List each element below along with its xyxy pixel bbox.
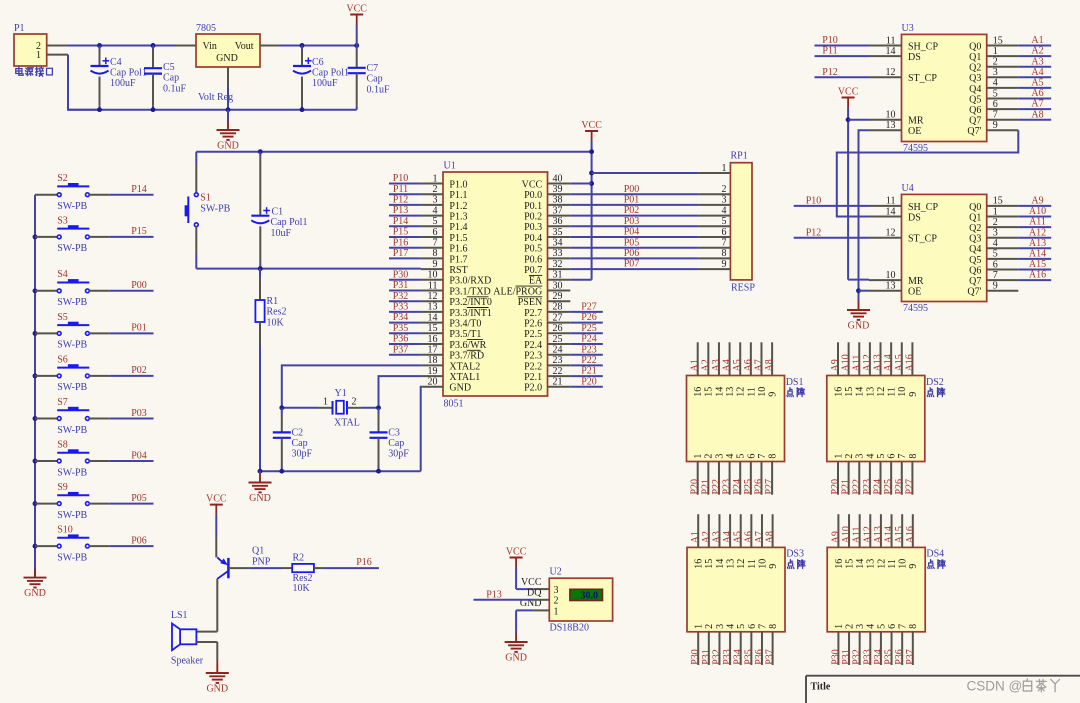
svg-text:LS1: LS1 [171,610,188,621]
svg-text:P3.1/TXD: P3.1/TXD [449,286,490,297]
svg-text:10: 10 [898,559,909,569]
svg-text:1: 1 [833,454,844,459]
wire and net label A13 (U4 Q4) [1018,238,1051,249]
svg-text:A5: A5 [732,359,743,371]
wire VCC to U3 MR pin10 [848,119,869,121]
capacitor C4 100uF [91,46,147,110]
svg-text:9: 9 [768,392,779,397]
ground GND (power) [217,110,240,152]
wire and net label P21 (U1 pin 22) [570,366,603,377]
wire and net label P13 (U1 pin 4) [389,205,421,216]
svg-text:P06: P06 [131,535,147,546]
svg-text:P23: P23 [581,344,597,355]
wire and net label P27 (U1 pin 28) [570,302,603,313]
svg-text:2: 2 [844,454,855,459]
svg-text:A6: A6 [743,531,754,543]
wire and net label P37 (U1 pin 17) [389,344,421,355]
wire XTAL2 net (U1 pin18) [282,365,421,407]
svg-text:C5: C5 [163,62,175,73]
svg-text:5: 5 [736,624,747,629]
label 点阵 (DS2) [927,388,945,397]
svg-text:A4: A4 [722,531,733,543]
svg-text:A12: A12 [1029,227,1046,238]
svg-text:7: 7 [722,238,727,249]
wire and net label P25 (U1 pin 26) [570,323,603,334]
svg-text:A16: A16 [904,354,915,371]
wire power ground rail [68,88,357,112]
wire and net label P26 (U1 pin 27) [570,312,603,323]
svg-text:GND: GND [848,321,870,332]
svg-text:P0.0: P0.0 [524,190,542,201]
svg-text:11: 11 [747,559,758,569]
label 点阵 (DS3) [787,560,805,569]
svg-text:P05: P05 [624,237,640,248]
svg-text:P01: P01 [624,195,640,206]
power VCC (U1/RP1) [581,120,602,280]
svg-text:P04: P04 [624,227,640,238]
svg-text:8051: 8051 [444,399,464,410]
wire and net label P11 (U3 DS) [815,46,870,57]
svg-text:P37: P37 [765,649,776,665]
wire and net label P24 (U1 pin 25) [570,334,603,345]
svg-text:5: 5 [876,624,887,629]
wire and net label P16 (U1 pin 7) [389,237,421,248]
svg-text:P17: P17 [393,248,409,259]
svg-text:P30: P30 [690,649,701,665]
svg-text:Cap: Cap [292,438,308,449]
svg-text:S2: S2 [57,173,68,184]
svg-text:A13: A13 [873,526,884,543]
svg-text:14: 14 [714,387,725,397]
svg-text:A4: A4 [1031,67,1043,78]
wire and net label P12 (U3 ST_CP) [815,67,870,78]
svg-text:P35: P35 [884,649,895,665]
svg-text:A1: A1 [690,531,701,543]
wire OE pins to GND (U3/U4) [856,130,869,301]
svg-text:P3.2/INT0: P3.2/INT0 [449,297,492,308]
wires DS2 top pins (A9..A16) [830,342,915,375]
wire and net label P15 (S3) [110,226,154,237]
switch S3 SW-PB [35,215,110,254]
svg-text:100uF: 100uF [110,78,136,89]
svg-text:SW-PB: SW-PB [57,552,87,563]
wire and net label P23 (U1 pin 24) [570,344,603,355]
svg-text:P13: P13 [393,205,409,216]
wire and net label A4 (U3 Q3) [1018,67,1051,78]
svg-text:9: 9 [908,392,919,397]
svg-text:A11: A11 [1029,217,1046,228]
svg-text:GND: GND [449,383,471,394]
svg-text:P31: P31 [841,649,852,665]
svg-text:P33: P33 [722,649,733,665]
svg-text:4: 4 [722,205,727,216]
svg-text:P25: P25 [581,323,597,334]
svg-text:P1: P1 [14,23,25,34]
svg-text:1: 1 [694,624,705,629]
wire and net label P03 (U1 pin 36 to RP1 pin 5) [570,216,730,227]
svg-text:R2: R2 [293,552,305,563]
svg-text:A6: A6 [1031,88,1043,99]
ground GND (U2) [505,633,528,664]
svg-text:Q0: Q0 [969,41,981,52]
wire EA net (U1 pin31) [570,279,591,281]
svg-text:15: 15 [704,387,715,397]
svg-text:ST_CP: ST_CP [908,73,937,84]
svg-text:10: 10 [757,559,768,569]
svg-text:1: 1 [693,454,704,459]
wire and net label P32 (U1 pin 12) [389,291,421,302]
svg-text:A15: A15 [1029,259,1046,270]
svg-text:A14: A14 [883,354,894,371]
svg-text:16: 16 [833,387,844,397]
wire and net label P10 (U3 SH_CP) [815,35,870,46]
svg-text:P21: P21 [841,479,852,495]
svg-text:SW-PB: SW-PB [57,201,87,212]
svg-text:P32: P32 [852,649,863,665]
switch S10 SW-PB [35,525,110,564]
svg-text:P11: P11 [393,184,408,195]
svg-text:DS4: DS4 [926,549,944,560]
svg-text:P15: P15 [131,226,147,237]
svg-text:P12: P12 [822,67,838,78]
svg-text:1: 1 [36,50,41,61]
wire button ground bus [33,195,38,578]
switch S4 SW-PB [35,269,110,308]
svg-text:100uF: 100uF [312,78,338,89]
svg-text:Q2: Q2 [969,63,981,74]
svg-text:PSEN: PSEN [518,297,542,308]
svg-text:P3.3/INT1: P3.3/INT1 [449,308,492,319]
svg-text:Cap Pol1: Cap Pol1 [110,68,147,79]
svg-text:A13: A13 [1029,238,1046,249]
svg-text:6: 6 [887,454,898,459]
svg-text:A1: A1 [690,359,701,371]
wire Q1 collector to speaker [196,579,217,632]
svg-text:2: 2 [352,397,357,408]
svg-text:7805: 7805 [196,23,216,34]
capacitor C6 100uF [293,46,349,110]
svg-text:A15: A15 [894,354,905,371]
svg-text:13: 13 [725,559,736,569]
svg-text:Cap: Cap [163,73,179,84]
wire and net label P11 (U1 pin 2) [389,184,421,195]
svg-text:A11: A11 [851,355,862,372]
svg-text:P26: P26 [894,479,905,495]
svg-text:12: 12 [876,559,887,569]
svg-text:P11: P11 [822,46,837,57]
svg-text:4: 4 [725,624,736,629]
svg-text:A13: A13 [873,354,884,371]
svg-text:Q4: Q4 [969,84,981,95]
svg-text:P04: P04 [131,450,147,461]
svg-text:A14: A14 [884,526,895,543]
svg-text:P2.4: P2.4 [524,340,542,351]
wire and net label P03 (S7) [110,408,154,419]
svg-text:6: 6 [747,624,758,629]
svg-text:P3.0/RXD: P3.0/RXD [449,276,491,287]
svg-text:P25: P25 [883,479,894,495]
svg-text:7: 7 [897,454,908,459]
dot matrix DS1 点阵 [687,376,804,462]
ground GND (speaker) [206,660,229,695]
svg-text:P05: P05 [131,493,147,504]
svg-text:Q6: Q6 [969,105,981,116]
svg-text:P16: P16 [393,237,409,248]
svg-text:30pF: 30pF [388,449,409,460]
svg-text:Q7': Q7' [967,287,981,298]
svg-text:P2.6: P2.6 [524,319,542,330]
svg-text:7: 7 [898,624,909,629]
wire and net label A16 (U4 Q7) [1018,270,1051,281]
svg-text:12: 12 [736,559,747,569]
svg-text:P26: P26 [753,479,764,495]
svg-text:Q0: Q0 [969,202,981,213]
svg-text:P2.3: P2.3 [524,351,542,362]
wire and net label P17 (U1 pin 8) [389,248,421,259]
svg-text:A12: A12 [862,526,873,543]
svg-text:P23: P23 [862,479,873,495]
svg-text:S5: S5 [57,312,68,323]
svg-text:S6: S6 [57,354,68,365]
wire and net label P34 (U1 pin 14) [389,312,421,323]
svg-text:DS2: DS2 [926,377,944,388]
wire and net label P16 (R2) [314,557,379,568]
svg-text:C3: C3 [388,427,400,438]
svg-text:VCC: VCC [522,179,543,190]
svg-text:Speaker: Speaker [171,655,204,666]
wire and net label A11 (U4 Q2) [1018,217,1051,228]
svg-text:ST_CP: ST_CP [908,234,937,245]
crystal Y1 XTAL [279,388,381,428]
title block [806,676,1080,703]
svg-text:RP1: RP1 [731,151,748,162]
svg-text:P21: P21 [581,366,597,377]
resistor pack RP1 RESP [722,151,756,294]
svg-text:P30: P30 [393,269,409,280]
svg-text:3: 3 [855,624,866,629]
svg-text:P02: P02 [624,205,640,216]
svg-text:10uF: 10uF [271,228,292,239]
svg-text:Q3: Q3 [969,234,981,245]
svg-text:P01: P01 [131,323,147,334]
svg-text:U4: U4 [902,183,914,194]
svg-text:P27: P27 [904,479,915,495]
svg-text:13: 13 [865,387,876,397]
svg-text:10: 10 [897,387,908,397]
transistor Q1 PNP [217,546,270,579]
svg-text:XTAL: XTAL [334,417,360,428]
wire and net label P35 (U1 pin 15) [389,323,421,334]
ground GND (button bus) [24,569,47,600]
svg-text:P02: P02 [131,365,147,376]
svg-text:GND: GND [216,53,238,64]
svg-text:14: 14 [855,387,866,397]
svg-text:11: 11 [887,387,898,397]
wire and net label P36 (U1 pin 16) [389,334,421,345]
wire and net label A10 (U4 Q1) [1018,206,1051,217]
wire and net label P22 (U1 pin 23) [570,355,603,366]
wire and net label P30 (U1 pin 10) [389,269,421,280]
wire U2 GND down [516,610,534,633]
wire and net label P14 (S2) [110,184,154,195]
svg-text:Cap: Cap [388,438,404,449]
svg-text:A5: A5 [1031,78,1043,89]
svg-text:P1.7: P1.7 [449,254,467,265]
wire and net label A12 (U4 Q3) [1018,227,1051,238]
power VCC (U3/U4 MR) [838,86,859,279]
svg-text:P26: P26 [581,312,597,323]
svg-text:P32: P32 [393,291,409,302]
svg-text:Q5: Q5 [969,255,981,266]
svg-text:Cap Pol1: Cap Pol1 [271,217,308,228]
wire and net label P14 (U1 pin 5) [389,216,421,227]
svg-text:A15: A15 [894,526,905,543]
svg-text:A14: A14 [1029,249,1046,260]
svg-text:P2.0: P2.0 [524,383,542,394]
svg-text:GND: GND [249,493,271,504]
svg-text:Q6: Q6 [969,265,981,276]
svg-text:P33: P33 [862,649,873,665]
svg-text:1: 1 [323,397,328,408]
svg-text:P24: P24 [732,479,743,495]
svg-text:11: 11 [746,387,757,397]
svg-text:OE: OE [908,287,921,298]
svg-text:A9: A9 [830,359,841,371]
svg-text:16: 16 [693,387,704,397]
svg-text:8: 8 [908,624,919,629]
switch S9 SW-PB [35,482,110,521]
wire and net label A2 (U3 Q1) [1018,46,1051,57]
svg-text:2: 2 [554,596,559,607]
svg-text:P36: P36 [393,334,409,345]
svg-text:P0.3: P0.3 [524,222,542,233]
svg-text:13: 13 [866,559,877,569]
wire and net label P07 (U1 pin 32 to RP1 pin 9) [570,259,730,270]
svg-text:A5: A5 [733,531,744,543]
label 电源接口 (power connector) [16,67,53,76]
svg-text:30.0: 30.0 [581,590,599,601]
wire and net label A8 (U3 Q7) [1018,109,1051,120]
svg-text:3: 3 [722,195,727,206]
svg-text:Q3: Q3 [969,73,981,84]
svg-text:ALE/PROG: ALE/PROG [493,286,542,297]
switch S5 SW-PB [35,312,110,351]
speaker LS1 [171,610,204,666]
svg-text:DS: DS [908,52,921,63]
wire and net label A3 (U3 Q2) [1018,56,1051,67]
svg-text:12: 12 [736,387,747,397]
svg-text:A8: A8 [764,359,775,371]
svg-text:P14: P14 [393,216,409,227]
svg-text:2: 2 [704,454,715,459]
svg-text:VCC: VCC [521,577,542,588]
svg-text:P36: P36 [894,649,905,665]
svg-text:SW-PB: SW-PB [57,382,87,393]
svg-text:GND: GND [217,141,239,152]
svg-text:DS18B20: DS18B20 [550,623,589,634]
wires DS3 top pins (A1..A8) [690,514,775,547]
svg-text:P10: P10 [822,35,838,46]
svg-text:P00: P00 [624,184,640,195]
svg-text:SW-PB: SW-PB [57,340,87,351]
svg-text:15: 15 [844,559,855,569]
svg-text:GND: GND [24,588,46,599]
svg-text:Vout: Vout [235,41,254,52]
svg-text:SH_CP: SH_CP [908,41,938,52]
svg-text:P2.5: P2.5 [524,329,542,340]
svg-text:A11: A11 [852,527,863,544]
svg-text:3: 3 [855,454,866,459]
svg-text:2: 2 [704,624,715,629]
svg-text:S3: S3 [57,215,68,226]
svg-text:A7: A7 [1031,99,1043,110]
svg-text:P3.7/RD: P3.7/RD [449,351,484,362]
svg-text:A9: A9 [1031,196,1043,207]
wire and net label P01 (U1 pin 38 to RP1 pin 3) [570,195,730,206]
dot matrix DS3 点阵 [687,547,804,631]
svg-text:16: 16 [834,559,845,569]
svg-text:P35: P35 [393,323,409,334]
wire 7805 Vout to VCC node [280,43,359,48]
power VCC (U2) [506,546,527,589]
wire and net label P10 (U4 SH_CP) [794,196,869,207]
IC U4 74595 shift register [869,183,1018,314]
svg-text:C2: C2 [292,427,304,438]
svg-text:SW-PB: SW-PB [57,425,87,436]
wire and net label P04 (U1 pin 35 to RP1 pin 6) [570,227,730,238]
svg-text:VCC: VCC [506,546,527,557]
wire crystal ground rail and U1 pin20 GND [258,387,421,474]
svg-text:P14: P14 [131,184,147,195]
wire XTAL1 net (U1 pin19) [379,376,421,408]
wire RST net [196,266,421,271]
svg-text:1: 1 [554,606,559,617]
svg-text:3: 3 [714,454,725,459]
svg-text:SW-PB: SW-PB [57,243,87,254]
svg-text:S1: S1 [200,193,211,204]
ground GND (crystal/reset) [249,471,272,504]
svg-text:P31: P31 [393,280,409,291]
svg-text:P34: P34 [733,649,744,665]
svg-text:Q2: Q2 [969,223,981,234]
svg-text:SW-PB: SW-PB [57,510,87,521]
svg-text:P1.0: P1.0 [449,179,467,190]
svg-text:P33: P33 [393,302,409,313]
svg-text:VCC: VCC [838,86,859,97]
wire and net label P05 (S9) [110,493,154,504]
capacitor C1 10uF (reset) [251,152,307,269]
svg-text:P00: P00 [131,280,147,291]
wires DS4 top pins (A9..A16) [830,514,915,547]
wire and net label P00 (S4) [110,280,154,291]
svg-text:P12: P12 [393,195,409,206]
svg-text:U3: U3 [902,23,914,34]
svg-text:GND: GND [206,684,228,695]
wires DS1 top pins (A1..A8) [690,342,775,375]
wire VCC to RP1 pin1 [592,172,731,174]
svg-text:A16: A16 [905,526,916,543]
svg-text:P3.5/T1: P3.5/T1 [449,329,481,340]
svg-text:P10: P10 [806,196,822,207]
svg-text:P0.6: P0.6 [524,254,542,265]
svg-text:S10: S10 [57,525,73,536]
wires DS3 bottom pins (P30..P37) [690,632,775,665]
wire and net label P13 (U2 DQ) [474,589,534,600]
svg-text:Vin: Vin [203,41,217,52]
svg-text:P24: P24 [873,479,884,495]
svg-text:P2.1: P2.1 [524,372,542,383]
svg-text:A10: A10 [841,526,852,543]
